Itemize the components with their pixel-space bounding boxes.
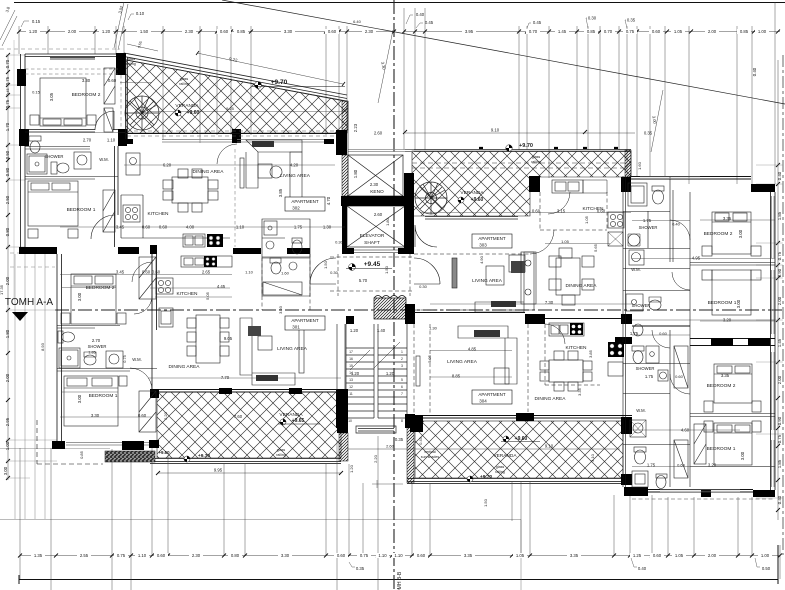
washing machine 301 <box>106 351 123 368</box>
svg-text:2.00: 2.00 <box>68 29 77 34</box>
svg-text:13: 13 <box>349 378 353 382</box>
svg-text:APARTMENT: APARTMENT <box>291 199 319 204</box>
svg-text:+9.65: +9.65 <box>292 418 305 424</box>
elevator shaft X box <box>347 206 405 247</box>
svg-text:LIVING AREA: LIVING AREA <box>277 346 308 352</box>
svg-text:0.40: 0.40 <box>638 566 647 571</box>
dim line 9.95 bottom left <box>158 472 341 474</box>
apt301 hall walls <box>262 254 310 310</box>
left site vertical lines <box>15 254 45 519</box>
svg-text:0.60: 0.60 <box>108 78 117 83</box>
sofa living 304 <box>458 326 517 384</box>
kitchen sink 303 <box>552 180 583 193</box>
bed bedroom1 303 <box>712 270 751 315</box>
top wall bedrooms 303 <box>631 177 751 180</box>
tick marks top row <box>17 30 780 34</box>
svg-text:0.85: 0.85 <box>79 450 84 459</box>
svg-text:sun shades: sun shades <box>421 455 440 459</box>
veranda BR top wall <box>414 416 632 419</box>
svg-text:1.50: 1.50 <box>384 265 389 274</box>
apt301 bedroom1 window bottom <box>66 443 149 446</box>
svg-text:0.70: 0.70 <box>604 29 613 34</box>
bedroom2 door arc <box>95 111 114 130</box>
apt301 wall band mid <box>118 247 139 254</box>
apt303 entry door arc <box>415 225 437 247</box>
windows top wall 303 <box>640 177 700 179</box>
veranda left edge wall <box>126 57 128 139</box>
svg-text:3.00: 3.00 <box>77 394 82 403</box>
side tables bedroom1 302 <box>28 229 38 238</box>
svg-text:0.60: 0.60 <box>220 29 229 34</box>
apt301 bedroom1 bottom wall blocks <box>52 441 65 449</box>
svg-text:8.85: 8.85 <box>452 374 461 379</box>
svg-text:1.10: 1.10 <box>378 553 387 558</box>
wardrobe 304b <box>674 440 688 478</box>
dashed setback line <box>37 420 103 464</box>
svg-text:2.65: 2.65 <box>202 270 211 275</box>
side tables bedroom2 302 <box>30 115 39 125</box>
svg-text:2.00: 2.00 <box>708 29 717 34</box>
veranda top-right top edge <box>405 150 631 152</box>
elevator left wall black <box>342 206 347 254</box>
left dim ticks <box>6 53 10 480</box>
svg-text:0.75: 0.75 <box>5 76 10 85</box>
svg-text:0.60: 0.60 <box>142 270 151 275</box>
apt304 kitchen dashed <box>545 324 600 385</box>
svg-text:0.45: 0.45 <box>419 437 423 444</box>
svg-text:1.05: 1.05 <box>674 29 683 34</box>
svg-text:+9.70: +9.70 <box>519 143 533 149</box>
dense hatch strip right of bottom-left veranda <box>339 433 348 461</box>
top border line <box>14 2 785 4</box>
corridor left door arc <box>310 258 336 284</box>
svg-text:9.25: 9.25 <box>226 106 235 111</box>
svg-text:1.50: 1.50 <box>483 498 488 507</box>
dim line 9.10 top right <box>405 132 635 134</box>
gravel stipple bed <box>105 451 155 462</box>
dense hatch strip right of top veranda <box>625 150 631 177</box>
svg-text:8: 8 <box>401 419 403 423</box>
svg-text:2.30: 2.30 <box>185 29 194 34</box>
section line B-B <box>393 0 395 590</box>
tv cabinet 302 <box>240 158 244 188</box>
bath 304 mid walls <box>623 330 690 487</box>
bath303 sink <box>628 183 647 206</box>
svg-text:0.35: 0.35 <box>356 566 365 571</box>
bath304b basin <box>632 471 648 487</box>
wall chunk kitchen302 mid <box>232 129 241 143</box>
closet bedroom2 302 <box>104 68 115 104</box>
spiral stair left veranda <box>125 96 159 130</box>
right boundary dash-dot <box>782 55 784 555</box>
svg-text:5.05: 5.05 <box>205 291 210 300</box>
kitchen sink 302 <box>183 234 205 247</box>
svg-text:3.20: 3.20 <box>708 463 717 468</box>
svg-text:0.60: 0.60 <box>328 29 337 34</box>
apt301 wing right wall <box>152 254 157 390</box>
svg-text:4.95: 4.95 <box>692 256 701 261</box>
svg-text:8.93: 8.93 <box>40 342 45 351</box>
svg-text:1.20: 1.20 <box>29 29 38 34</box>
svg-text:2.20: 2.20 <box>163 411 168 420</box>
svg-text:1.75: 1.75 <box>647 463 656 468</box>
svg-text:14: 14 <box>349 371 353 375</box>
side tables bedroom1 301 <box>61 372 63 374</box>
top extension lines right <box>404 2 775 184</box>
elevator bottom right seg <box>398 248 414 254</box>
apt302 kitchen door arc <box>217 144 237 164</box>
right dim column rotated <box>752 67 782 504</box>
svg-text:VERANDA: VERANDA <box>460 190 484 196</box>
fridge 304 <box>608 362 623 376</box>
bath 303 mid walls <box>623 211 690 291</box>
svg-text:0.60: 0.60 <box>337 553 346 558</box>
stair break line <box>350 342 400 370</box>
sofa living 301 <box>240 318 295 385</box>
stair side walls <box>346 324 407 428</box>
veranda BL wall blocks <box>150 389 159 398</box>
side tables bedroom2 301 <box>61 313 70 324</box>
dining table 301 <box>196 315 220 363</box>
core left wall black upper <box>336 130 347 155</box>
tv 301 <box>299 323 304 373</box>
svg-text:1.75: 1.75 <box>645 374 654 379</box>
svg-text:2.00: 2.00 <box>5 276 10 285</box>
dim line 9.10 bottom right <box>347 448 620 450</box>
svg-text:2.30: 2.30 <box>370 182 379 187</box>
svg-text:0.40: 0.40 <box>672 222 681 227</box>
apt301 kitchen wall x157 <box>151 254 153 310</box>
svg-text:16: 16 <box>349 357 353 361</box>
svg-text:0.75: 0.75 <box>777 251 782 260</box>
svg-text:0.30: 0.30 <box>330 270 339 275</box>
dining table 302 <box>172 177 208 203</box>
svg-text:0.30: 0.30 <box>419 284 428 289</box>
svg-text:KENO: KENO <box>370 189 384 195</box>
svg-text:0.70: 0.70 <box>5 59 10 68</box>
top-right block kitchen303 <box>529 176 540 192</box>
svg-text:railing: railing <box>126 62 136 66</box>
svg-text:3.95: 3.95 <box>465 29 474 34</box>
closet bedroom2 301 <box>139 257 156 299</box>
wall chunk living302 right <box>324 139 334 144</box>
svg-text:KITCHEN: KITCHEN <box>565 345 587 351</box>
svg-text:3.30: 3.30 <box>281 553 290 558</box>
svg-text:SHOWER: SHOWER <box>88 344 107 349</box>
right horizontal extension lines <box>756 165 783 498</box>
left dim vertical line 2 <box>13 40 15 300</box>
slanted dim 3.30 left of B-B <box>378 30 393 103</box>
wm 303 <box>629 250 644 265</box>
svg-text:0.35: 0.35 <box>644 131 653 136</box>
svg-text:3.45: 3.45 <box>116 270 125 275</box>
bath304 shower head <box>658 370 668 381</box>
svg-text:0.45: 0.45 <box>533 20 542 25</box>
left horizontal extension lines <box>6 55 57 478</box>
dense hatch strip core top <box>342 101 348 130</box>
kitchen hob 303 <box>608 212 624 228</box>
basin apt302 bath <box>266 241 274 249</box>
svg-text:glass: glass <box>180 77 189 81</box>
svg-text:2.50: 2.50 <box>5 195 10 204</box>
svg-text:0.80: 0.80 <box>5 227 10 236</box>
svg-text:302: 302 <box>292 206 300 211</box>
apt304 bedroom wall left <box>689 322 691 487</box>
side tables bedroom2 303 <box>702 246 712 256</box>
bottom border line <box>19 545 778 584</box>
veranda top-right bottom edge <box>425 217 518 220</box>
svg-text:+9.60: +9.60 <box>515 436 528 442</box>
svg-text:303: 303 <box>479 243 487 248</box>
svg-text:1.85: 1.85 <box>777 211 782 220</box>
svg-text:+9.70: +9.70 <box>198 453 210 459</box>
apt303 kitchen counter <box>540 192 607 230</box>
apt301 living/core wall <box>337 324 345 390</box>
tv 303 <box>452 258 457 288</box>
oven cabinet 301 <box>159 308 173 327</box>
svg-text:+9.60: +9.60 <box>158 450 170 455</box>
svg-text:0.40: 0.40 <box>777 171 782 180</box>
svg-text:5.05: 5.05 <box>427 354 432 363</box>
svg-text:0.75: 0.75 <box>360 553 369 558</box>
bottom wall 304 window <box>648 490 753 493</box>
apt303 corridor dashed <box>414 254 530 310</box>
apt301 wall band lower-left <box>19 247 57 254</box>
corridor dashed floor line <box>330 257 414 291</box>
top dimension line right <box>404 31 780 33</box>
veranda bottom-left hatch <box>157 392 341 458</box>
svg-text:+9.45: +9.45 <box>364 261 381 268</box>
interior dimension texts <box>32 19 745 507</box>
kitchen hob 302 <box>123 205 140 222</box>
svg-text:0.15: 0.15 <box>32 19 41 24</box>
side tables bedroom1 303 <box>702 270 712 280</box>
basin 301 <box>84 355 96 365</box>
svg-text:0.75: 0.75 <box>117 553 126 558</box>
svg-text:BEDROOM 2: BEDROOM 2 <box>704 231 733 237</box>
dining table 304 <box>549 360 583 382</box>
svg-text:BEDROOM 1: BEDROOM 1 <box>89 393 118 399</box>
svg-text:10: 10 <box>348 419 352 423</box>
svg-text:1.05: 1.05 <box>584 215 589 224</box>
bath304 shower tray <box>646 346 659 363</box>
bath303 wc <box>652 186 664 191</box>
svg-text:0.85: 0.85 <box>237 29 246 34</box>
bottom extension lines <box>20 436 780 590</box>
corridor dashed sides <box>338 254 410 296</box>
svg-text:W.M.: W.M. <box>99 157 109 162</box>
window dining302 top <box>162 140 324 143</box>
svg-text:7.60: 7.60 <box>234 414 243 419</box>
svg-text:3.10: 3.10 <box>590 453 595 462</box>
svg-text:glass: glass <box>127 57 136 61</box>
kitchen counter 301 top <box>181 256 232 267</box>
main stair run <box>346 324 407 433</box>
svg-text:BEDROOM 2: BEDROOM 2 <box>707 383 736 389</box>
svg-text:1.85: 1.85 <box>777 459 782 468</box>
dense hatch strip left of bottom-right veranda <box>407 421 414 483</box>
toilet 302b upper <box>29 136 41 141</box>
svg-text:1: 1 <box>401 350 403 354</box>
svg-text:0.85: 0.85 <box>587 29 596 34</box>
svg-text:1.20: 1.20 <box>350 328 359 333</box>
svg-text:7.30: 7.30 <box>545 300 554 305</box>
svg-text:SHOWER: SHOWER <box>639 225 658 230</box>
spiral stair right veranda <box>415 182 447 214</box>
stair center stringer <box>374 324 378 418</box>
svg-text:0.70: 0.70 <box>529 29 538 34</box>
svg-text:301: 301 <box>292 325 300 330</box>
svg-text:0.60: 0.60 <box>659 331 668 336</box>
svg-text:5.70: 5.70 <box>359 278 368 283</box>
shower2 303 tray <box>626 294 643 311</box>
svg-text:1.35: 1.35 <box>34 553 43 558</box>
bedroom2/1 303 wall <box>690 263 775 266</box>
svg-text:SHOWER: SHOWER <box>636 366 655 371</box>
svg-text:4.85: 4.85 <box>468 347 477 352</box>
site line left <box>0 520 521 590</box>
svg-text:0.60: 0.60 <box>652 29 661 34</box>
wall shower bottom <box>25 177 118 180</box>
svg-text:BEDROOM 1: BEDROOM 1 <box>67 207 96 213</box>
svg-text:0.60: 0.60 <box>597 209 606 214</box>
svg-text:0.80: 0.80 <box>5 167 10 176</box>
wall chunk kitchen302 left <box>119 139 133 144</box>
svg-text:5: 5 <box>401 378 403 382</box>
svg-text:0.75: 0.75 <box>777 434 782 443</box>
svg-text:DINING AREA: DINING AREA <box>535 396 567 402</box>
svg-text:ELEVATOR: ELEVATOR <box>360 233 385 239</box>
svg-text:W.M.: W.M. <box>636 408 646 413</box>
room labels <box>45 92 737 459</box>
fridge 303 <box>608 232 623 246</box>
bed bedroom2 302 <box>40 78 86 126</box>
stair bottom wall block right <box>405 414 415 428</box>
svg-text:LIVING AREA: LIVING AREA <box>447 359 478 365</box>
svg-text:railing: railing <box>179 82 189 86</box>
wardrobe 304a <box>674 346 688 388</box>
svg-text:1.20: 1.20 <box>102 29 111 34</box>
svg-text:17.35: 17.35 <box>0 284 4 295</box>
top extension lines <box>19 26 347 150</box>
wall block top right of bedroom2 <box>116 53 126 75</box>
stair bottom wall block left <box>336 390 346 428</box>
bath 301 walls <box>262 258 310 296</box>
svg-text:0.40: 0.40 <box>416 12 425 17</box>
bedroom2 inner wall bottom <box>25 130 118 133</box>
shower apt302 bath <box>264 221 277 235</box>
apt301 wall block <box>150 245 157 254</box>
section arrow A-A <box>12 312 28 321</box>
svg-text:2.00: 2.00 <box>5 373 10 382</box>
svg-text:2.60: 2.60 <box>386 444 395 449</box>
elevator bottom left seg <box>342 248 354 254</box>
svg-text:2.60: 2.60 <box>374 212 383 217</box>
svg-text:3.00: 3.00 <box>738 229 743 238</box>
svg-text:1.00: 1.00 <box>5 441 10 450</box>
svg-text:1.10: 1.10 <box>245 270 254 275</box>
kitchen sink 304 <box>549 323 584 336</box>
svg-text:9.10: 9.10 <box>545 444 554 449</box>
right outer wall top block <box>751 184 775 192</box>
dense hatch strip core mid <box>342 155 348 196</box>
svg-text:1.80: 1.80 <box>353 169 358 178</box>
svg-text:1.05: 1.05 <box>561 239 570 244</box>
svg-text:2.30: 2.30 <box>192 553 201 558</box>
veranda BR wall blocks <box>410 415 423 432</box>
svg-text:+9.60: +9.60 <box>471 197 484 203</box>
dashed hall lines 304 <box>414 324 528 415</box>
svg-text:2.00: 2.00 <box>708 553 717 558</box>
svg-text:12: 12 <box>349 385 353 389</box>
svg-text:VERANDA: VERANDA <box>175 103 199 109</box>
svg-text:3.30: 3.30 <box>82 78 91 83</box>
dining table 303 <box>556 258 580 295</box>
wall block right mid <box>118 129 127 146</box>
svg-text:BEDROOM 2: BEDROOM 2 <box>86 285 115 291</box>
veranda bottom-left glass railing <box>150 459 341 464</box>
svg-text:0.35: 0.35 <box>627 18 636 23</box>
bath301 shower tray <box>263 282 302 295</box>
interior dimension lines <box>60 83 775 467</box>
svg-text:1.00: 1.00 <box>758 29 767 34</box>
svg-text:3.85: 3.85 <box>278 188 283 197</box>
veranda bottom wall <box>126 133 347 135</box>
wall block left mid <box>19 129 29 146</box>
svg-text:15: 15 <box>349 364 353 368</box>
svg-text:0.40: 0.40 <box>752 67 757 76</box>
svg-text:DINING AREA: DINING AREA <box>566 283 598 289</box>
svg-text:KITCHEN: KITCHEN <box>147 211 169 217</box>
svg-text:9.10: 9.10 <box>491 128 500 133</box>
apt304 bath wall <box>623 330 626 487</box>
bottom wall 304 blocks <box>624 487 648 496</box>
svg-text:6.40: 6.40 <box>353 19 362 24</box>
apt301 bedroom2/bath wall <box>57 326 120 329</box>
washing machine 302 <box>74 152 91 169</box>
leader 3.02 <box>114 2 158 51</box>
svg-text:7: 7 <box>401 392 403 396</box>
left dim vertical line <box>7 55 9 480</box>
svg-text:2.20: 2.20 <box>373 454 378 463</box>
apartment boxes <box>285 197 512 404</box>
closet bedroom1 301 <box>139 391 156 432</box>
right dim line <box>777 60 779 520</box>
svg-text:glass: glass <box>277 448 286 452</box>
svg-text:APARTMENT: APARTMENT <box>478 236 506 241</box>
toilet 301 <box>58 331 63 343</box>
veranda bottom-right glass railing <box>407 479 623 484</box>
apt302 outer wall left <box>21 54 26 247</box>
bath303 shower head <box>628 234 640 246</box>
svg-text:0.60: 0.60 <box>157 553 166 558</box>
w.m. room 303 walls <box>623 268 690 270</box>
side tables bedroom1 304 <box>704 421 713 432</box>
svg-text:2.70: 2.70 <box>92 338 101 343</box>
svg-text:0.75: 0.75 <box>5 99 10 108</box>
svg-text:2: 2 <box>401 357 403 361</box>
veranda top-left wedge hatch <box>126 60 347 133</box>
bottom dimension line <box>20 555 780 557</box>
svg-text:4.45: 4.45 <box>217 284 226 289</box>
svg-text:+9.70: +9.70 <box>271 79 288 86</box>
apt302 hall bath walls <box>262 219 310 257</box>
svg-text:W.M.: W.M. <box>631 267 641 272</box>
coffee table 302 <box>270 166 282 178</box>
svg-text:1.10: 1.10 <box>107 138 116 143</box>
svg-text:1.60: 1.60 <box>281 271 290 276</box>
dashed lines across top-right veranda <box>412 163 625 168</box>
